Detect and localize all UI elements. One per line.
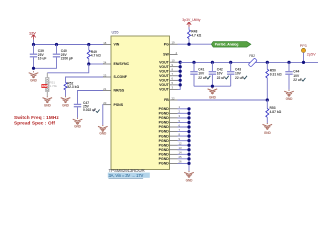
svg-text:NR/SS: NR/SS	[114, 89, 125, 93]
IC U55 TPSM82913RDUR	[111, 31, 170, 170]
wire EN to R51	[47, 64, 88, 73]
svg-text:VIN: VIN	[114, 43, 120, 47]
node R49 top	[87, 43, 90, 46]
resistor R50	[266, 62, 282, 100]
svg-text:22 uF: 22 uF	[235, 76, 244, 80]
svg-text:Spread Spec : Off: Spread Spec : Off	[14, 120, 55, 125]
ground under PSNS	[98, 125, 108, 136]
wire VIN rail	[34, 44, 104, 46]
ground under caps	[208, 88, 218, 100]
ferrite bead FB2	[248, 54, 257, 67]
ground under R51	[43, 96, 53, 107]
svg-text:18: 18	[103, 41, 107, 45]
node C39/C40 gnd junction	[32, 67, 35, 70]
pin numbers	[103, 41, 182, 164]
svg-text:PP3: PP3	[300, 44, 307, 48]
net flag PwrGd_Analog	[211, 42, 251, 48]
svg-text:PGND: PGND	[159, 143, 170, 147]
svg-text:2p5V: 2p5V	[307, 52, 316, 56]
svg-text:GND: GND	[209, 96, 217, 100]
svg-text:21: 21	[103, 87, 107, 91]
svg-text:1.74k: 1.74k	[49, 84, 57, 88]
svg-text:PGND: PGND	[159, 157, 170, 161]
capacitor C41	[190, 62, 207, 86]
wire NR/SS row	[78, 91, 104, 105]
svg-text:PGND: PGND	[159, 148, 170, 152]
svg-text:10 uF: 10 uF	[38, 57, 47, 61]
svg-text:DNP: DNP	[42, 84, 48, 88]
svg-text:VOUT: VOUT	[159, 79, 170, 83]
svg-text:PGND: PGND	[159, 107, 170, 111]
variant check mark	[207, 76, 211, 79]
svg-text:PwrGd_Analog: PwrGd_Analog	[215, 43, 239, 47]
svg-text:4.7 kΩ: 4.7 kΩ	[191, 33, 201, 37]
pin stubs left	[103, 45, 111, 105]
svg-text:PGND: PGND	[159, 121, 170, 125]
ground under R53	[263, 123, 273, 135]
svg-text:GND: GND	[62, 104, 70, 108]
variant check mark	[225, 76, 229, 79]
svg-text:U55: U55	[112, 31, 119, 35]
svg-text:PGND: PGND	[159, 130, 170, 134]
svg-text:VOUT: VOUT	[159, 88, 170, 92]
svg-text:Switch Freq : 1MHz: Switch Freq : 1MHz	[14, 115, 59, 120]
wire output rail	[180, 61, 318, 63]
svg-text:PGND: PGND	[159, 162, 170, 166]
svg-text:2200 pF: 2200 pF	[61, 57, 73, 61]
svg-text:PGND: PGND	[159, 116, 170, 120]
nodes VOUT bus	[179, 61, 182, 87]
variant check mark	[243, 76, 247, 79]
ground under C47	[73, 118, 83, 129]
svg-text:PGND: PGND	[159, 139, 170, 143]
ground under R52	[61, 96, 71, 107]
svg-text:VOUT: VOUT	[159, 83, 170, 87]
resistor R52	[64, 81, 79, 96]
capacitor C42	[209, 62, 226, 86]
svg-text:23: 23	[103, 73, 107, 77]
svg-text:10V: 10V	[235, 72, 242, 76]
svg-text:GND: GND	[44, 104, 52, 108]
variant check mark	[302, 78, 306, 81]
svg-text:GND: GND	[286, 97, 294, 101]
svg-text:10V: 10V	[198, 72, 205, 76]
svg-text:10V: 10V	[293, 74, 300, 78]
12V power flag	[29, 31, 36, 39]
svg-text:4.7 kΩ: 4.7 kΩ	[91, 54, 101, 58]
nodes on output rail	[192, 61, 290, 64]
svg-text:GND: GND	[30, 79, 38, 83]
svg-text:FB2: FB2	[249, 54, 255, 58]
svg-text:PGND: PGND	[159, 112, 170, 116]
wire EN/SYNC row	[89, 63, 103, 65]
svg-text:VOUT: VOUT	[159, 65, 170, 69]
wire 12V stem	[33, 40, 35, 45]
3p3V_Utility flag	[182, 18, 200, 27]
svg-text:12V: 12V	[29, 31, 36, 35]
svg-text:22 uF: 22 uF	[293, 78, 302, 82]
svg-text:SW: SW	[163, 53, 169, 57]
svg-text:3A, Vin = 3V → 17V: 3A, Vin = 3V → 17V	[109, 173, 144, 178]
wire PSNS to gnd	[102, 105, 104, 125]
svg-text:4.87 kΩ: 4.87 kΩ	[270, 110, 282, 114]
svg-text:24: 24	[103, 60, 107, 64]
svg-text:PGND: PGND	[159, 153, 170, 157]
svg-text:VOUT: VOUT	[159, 74, 170, 78]
svg-text:3p3V_Utility: 3p3V_Utility	[182, 18, 200, 22]
svg-text:GND: GND	[186, 178, 194, 182]
capacitor C43	[227, 62, 244, 86]
svg-text:PGND: PGND	[159, 134, 170, 138]
wire S-CONF row	[66, 77, 104, 82]
ground under C39	[29, 71, 39, 82]
ground under PGND bus	[184, 171, 194, 182]
test point PP3	[300, 44, 316, 64]
svg-text:GND: GND	[99, 132, 107, 136]
VOUT bus	[178, 62, 181, 89]
resistor R51 DNP	[41, 73, 57, 96]
wire PG row	[178, 43, 212, 45]
svg-text:VOUT: VOUT	[159, 69, 170, 73]
wire FB row	[178, 99, 268, 101]
node R49/EN	[87, 62, 90, 65]
resistor R48	[188, 27, 202, 44]
capacitor C39	[30, 45, 47, 69]
node FB divider	[266, 98, 269, 101]
svg-text:PGND: PGND	[159, 125, 170, 129]
svg-text:10V: 10V	[217, 72, 224, 76]
svg-text:GND: GND	[74, 125, 82, 129]
capacitor C44	[285, 62, 302, 89]
svg-text:10: 10	[172, 59, 176, 63]
node 12V/C39	[32, 43, 35, 46]
node C40	[55, 43, 58, 46]
PGND bus wires	[178, 109, 190, 171]
nodes PGND bus	[187, 107, 190, 165]
IC part number label	[108, 168, 150, 178]
svg-text:22 uF: 22 uF	[217, 76, 226, 80]
svg-text:20: 20	[103, 101, 107, 105]
svg-text:EN/SYNC: EN/SYNC	[114, 62, 130, 66]
svg-text:PSNS: PSNS	[114, 103, 124, 107]
svg-text:22: 22	[172, 96, 176, 100]
svg-text:9.31 kΩ: 9.31 kΩ	[270, 73, 282, 77]
resistor R49	[87, 45, 101, 65]
svg-text:52.3 kΩ: 52.3 kΩ	[67, 85, 79, 89]
svg-text:19: 19	[172, 41, 176, 45]
svg-text:PG: PG	[164, 42, 169, 46]
node R48/PG	[187, 43, 190, 46]
annotation icon	[93, 110, 99, 113]
svg-text:GND: GND	[264, 131, 272, 135]
ground under C44	[284, 90, 294, 101]
resistor R53	[266, 100, 282, 123]
node caps gnd	[211, 85, 214, 88]
svg-text:S-CONF: S-CONF	[114, 75, 128, 79]
svg-text:FB: FB	[164, 98, 169, 102]
svg-text:VOUT: VOUT	[159, 60, 170, 64]
capacitor C47	[74, 101, 96, 118]
svg-text:22 uF: 22 uF	[198, 76, 207, 80]
capacitor C40	[34, 45, 74, 69]
pin stubs right	[170, 44, 178, 163]
wire caps gnd bus	[194, 85, 231, 87]
